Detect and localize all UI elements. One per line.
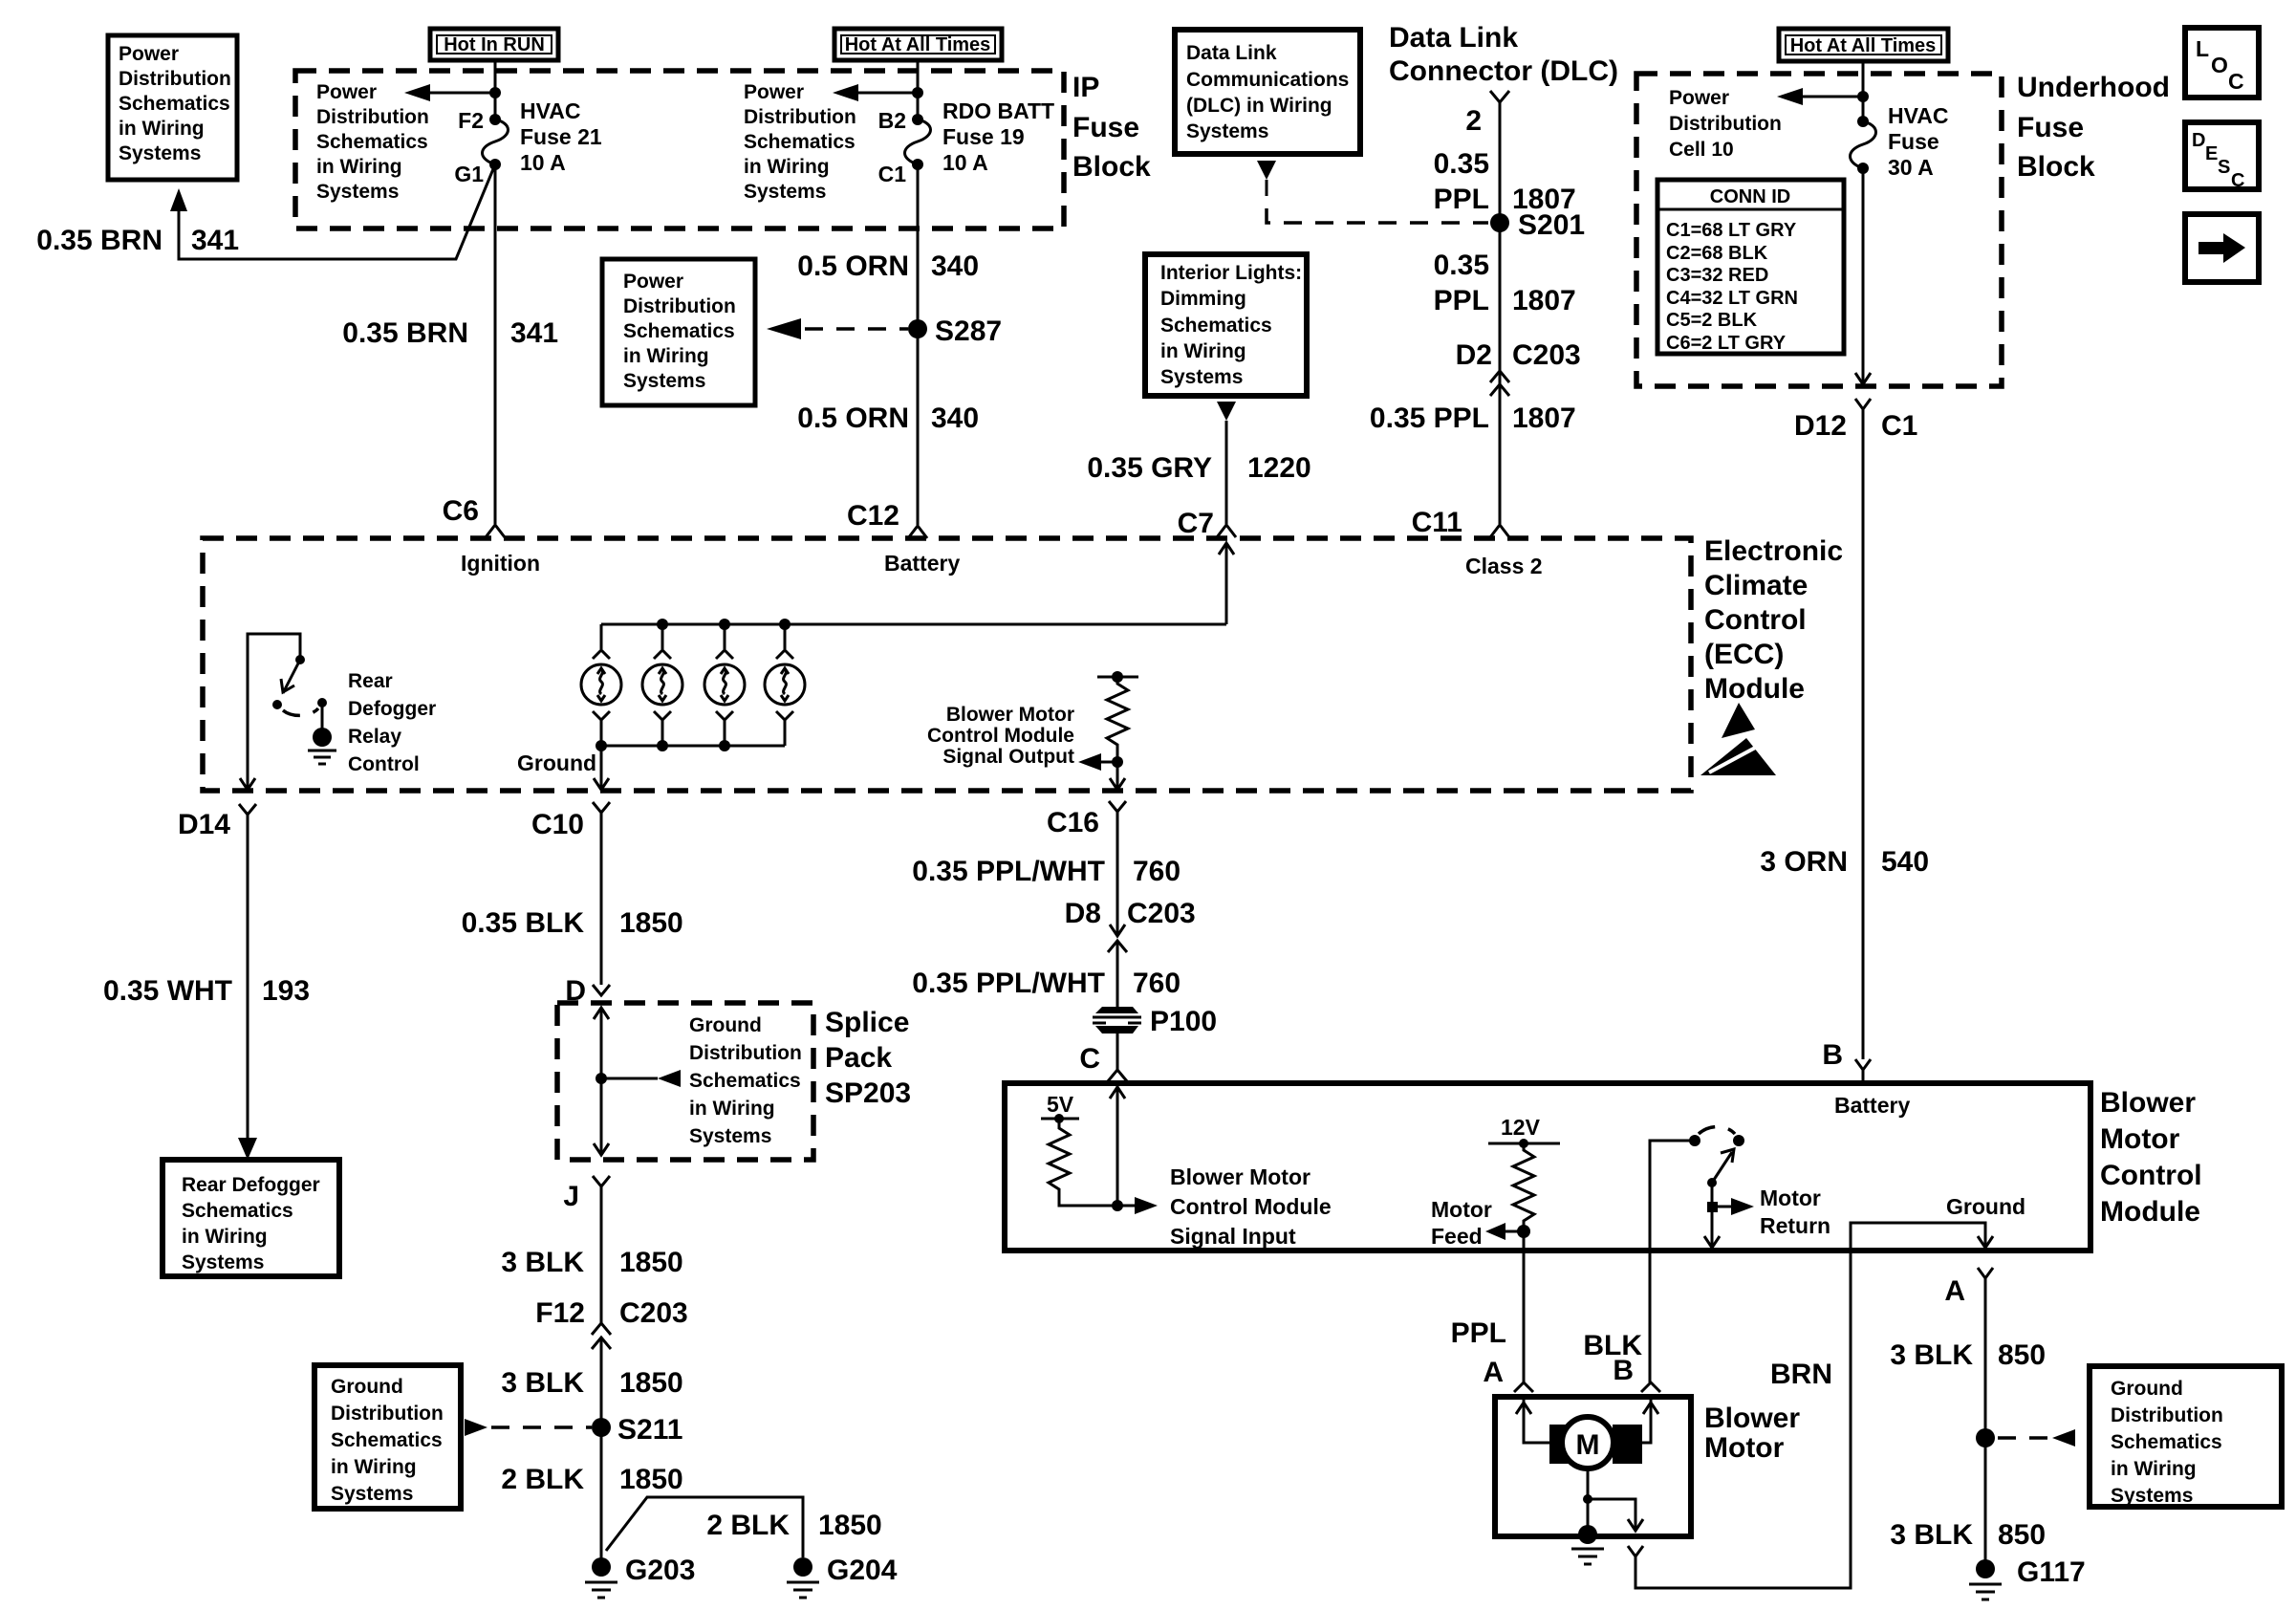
svg-text:0.35: 0.35 — [1434, 250, 1489, 281]
svg-text:C11: C11 — [1412, 507, 1462, 538]
svg-text:0.35 PPL/WHT: 0.35 PPL/WHT — [912, 856, 1105, 887]
node: signal input junction — [1112, 1200, 1123, 1211]
svg-text:C1=68 LT GRY: C1=68 LT GRY — [1666, 220, 1797, 241]
svg-text:Schematics: Schematics — [1160, 315, 1272, 337]
svg-text:Fuse 21: Fuse 21 — [520, 124, 602, 149]
text: Power Distribution Cell 10 — [1669, 87, 1782, 161]
svg-text:760: 760 — [1133, 856, 1180, 887]
svg-text:5V: 5V — [1047, 1092, 1074, 1117]
svg-text:Distribution: Distribution — [331, 1403, 444, 1425]
blower signal output resistor — [1097, 671, 1138, 762]
grommet P100 — [1093, 1007, 1141, 1033]
text: Power Distribution Schematics in Wiring Systems (inside IP box, left) — [316, 81, 429, 203]
svg-text:Blower Motor: Blower Motor — [1170, 1164, 1310, 1189]
label D2 | C203 — [1456, 339, 1581, 371]
wire: Hot In RUN down to fuse F2 — [494, 60, 497, 120]
connector C12 (caret) — [908, 526, 927, 538]
connector D8 C203 (arrow + chevron) — [1108, 925, 1127, 952]
reference box: Rear Defogger Schematics in Wiring Systems — [162, 1160, 339, 1276]
motor brush (right) — [1613, 1425, 1642, 1464]
label 0.35 BRN | 341 (middle) — [342, 317, 558, 349]
label 0.35 PPL | 1807 (lower) — [1370, 402, 1576, 434]
svg-text:Schematics: Schematics — [119, 93, 230, 115]
desc box — [2185, 122, 2259, 191]
svg-text:Rear Defogger: Rear Defogger — [182, 1174, 320, 1196]
svg-text:Schematics: Schematics — [744, 131, 856, 153]
svg-text:3 ORN: 3 ORN — [1760, 846, 1848, 878]
label Blower Motor — [1704, 1403, 1800, 1464]
svg-text:HVAC: HVAC — [520, 98, 580, 123]
motor brush (left) — [1549, 1425, 1582, 1464]
wire: splice pack internal with arrows — [594, 1008, 609, 1155]
svg-text:0.35 BRN: 0.35 BRN — [36, 225, 162, 256]
connector at motor return (Y) — [1628, 1546, 1643, 1569]
connector J (Y) — [593, 1176, 610, 1199]
svg-text:D: D — [2192, 130, 2205, 151]
ESD sensitivity symbol — [1700, 703, 1776, 775]
arrow into Power Distribution box (solid up triangle) — [170, 188, 187, 211]
svg-text:0.35: 0.35 — [1434, 148, 1489, 180]
svg-text:Motor: Motor — [1431, 1197, 1492, 1222]
wire: C into module (up arrow) — [1110, 1083, 1125, 1206]
svg-text:Systems: Systems — [2111, 1485, 2193, 1507]
svg-text:0.35 BRN: 0.35 BRN — [342, 317, 468, 349]
node on bus (lamp 3) — [719, 619, 730, 630]
connector C (caret) — [1108, 1070, 1127, 1081]
label F12 | C203 — [535, 1297, 687, 1329]
svg-text:0.35 WHT: 0.35 WHT — [103, 975, 232, 1007]
svg-text:in Wiring: in Wiring — [744, 156, 830, 178]
splice S201 — [1490, 213, 1509, 232]
wire: Interior Lights to C7 — [1225, 421, 1228, 524]
svg-text:Motor: Motor — [2100, 1123, 2180, 1155]
CONN ID table — [1657, 180, 1844, 354]
svg-text:Block: Block — [1072, 151, 1151, 183]
svg-text:Distribution: Distribution — [744, 106, 856, 128]
svg-text:Control Module: Control Module — [1170, 1194, 1332, 1219]
svg-text:3 BLK: 3 BLK — [1890, 1339, 1973, 1371]
svg-text:Data Link: Data Link — [1389, 22, 1518, 54]
svg-text:Systems: Systems — [316, 181, 399, 203]
label 3 BLK | 1850 (lower) — [501, 1367, 682, 1399]
label 3 ORN | 540 — [1760, 846, 1929, 878]
svg-text:341: 341 — [191, 225, 239, 256]
svg-text:in Wiring: in Wiring — [182, 1226, 268, 1248]
IP fuse block dashed box — [295, 71, 1064, 228]
svg-text:Connector (DLC): Connector (DLC) — [1389, 55, 1618, 87]
svg-text:(ECC): (ECC) — [1704, 639, 1784, 670]
connector at DLC (V) — [1490, 91, 1509, 102]
arrow (left) motor feed — [1485, 1223, 1524, 1240]
svg-text:Power: Power — [119, 43, 179, 65]
svg-text:Distribution: Distribution — [1669, 113, 1782, 135]
svg-text:3 BLK: 3 BLK — [501, 1247, 584, 1278]
svg-text:F2: F2 — [458, 108, 484, 133]
svg-text:D2: D2 — [1456, 339, 1492, 371]
svg-text:Schematics: Schematics — [689, 1070, 801, 1092]
svg-text:Class 2: Class 2 — [1465, 554, 1543, 578]
svg-text:Module: Module — [1704, 673, 1805, 705]
connector C6 (caret) — [486, 525, 505, 537]
svg-text:F12: F12 — [535, 1297, 585, 1329]
label Blower Motor Control Module Signal Input — [1170, 1164, 1332, 1249]
text: Ground Distribution Schematics in Wiring Systems (splice pack) — [689, 1014, 802, 1147]
svg-text:Systems: Systems — [119, 142, 201, 164]
flag box: Hot In RUN — [430, 29, 558, 60]
arrow below Interior Lights box (solid down triangle) — [1217, 402, 1236, 421]
junction node on HVAC fuse feed — [489, 87, 501, 98]
svg-text:0.35 PPL: 0.35 PPL — [1370, 402, 1489, 434]
svg-text:850: 850 — [1998, 1339, 2046, 1371]
label HVAC Fuse 21 10 A — [520, 98, 602, 175]
node on bus (lamp 2) — [657, 619, 668, 630]
svg-text:Schematics: Schematics — [182, 1200, 293, 1222]
arrow into Rear Defogger box (solid down triangle) — [238, 1138, 257, 1160]
svg-text:C1: C1 — [878, 162, 907, 186]
svg-text:G1: G1 — [454, 162, 484, 186]
wire: F12 down to G203 — [600, 1338, 603, 1562]
svg-text:Cell 10: Cell 10 — [1669, 139, 1734, 161]
svg-text:Electronic: Electronic — [1704, 535, 1843, 567]
svg-text:Rear: Rear — [348, 670, 393, 692]
svg-text:C: C — [2231, 170, 2244, 191]
reference box: Data Link Communications (DLC) in Wiring Systems — [1175, 30, 1360, 154]
svg-text:PPL: PPL — [1434, 285, 1489, 316]
svg-text:2 BLK: 2 BLK — [706, 1510, 790, 1541]
wire: motor to ground and return branch — [1583, 1469, 1643, 1534]
svg-text:0.35 PPL/WHT: 0.35 PPL/WHT — [912, 968, 1105, 999]
resistor (5V pull-up) — [1049, 1119, 1117, 1206]
svg-text:Systems: Systems — [1160, 366, 1243, 388]
svg-text:S287: S287 — [935, 315, 1002, 347]
svg-text:0.5 ORN: 0.5 ORN — [797, 402, 909, 434]
svg-text:Return: Return — [1760, 1213, 1830, 1238]
svg-text:0.5 ORN: 0.5 ORN — [797, 250, 909, 282]
svg-text:B2: B2 — [878, 108, 906, 133]
arrow (right) signal input — [1117, 1197, 1158, 1214]
node: splice pack tap — [596, 1073, 607, 1084]
connector C7 (caret) — [1217, 525, 1236, 537]
rear defogger relay control switch — [248, 634, 336, 791]
svg-text:Fuse: Fuse — [1888, 129, 1939, 154]
blower motor control module box — [1005, 1083, 2090, 1251]
reference box: Ground Distribution Schematics (right) — [2090, 1366, 2282, 1507]
fuse HVAC Fuse 21 10 A — [483, 114, 509, 170]
svg-text:Ground: Ground — [517, 751, 596, 775]
svg-text:Relay: Relay — [348, 726, 401, 748]
svg-text:S211: S211 — [617, 1414, 682, 1446]
svg-text:C1: C1 — [1881, 410, 1917, 442]
svg-text:Fuse: Fuse — [1072, 112, 1139, 143]
svg-text:1807: 1807 — [1512, 402, 1576, 434]
svg-text:PPL: PPL — [1434, 184, 1489, 215]
svg-text:Systems: Systems — [689, 1125, 771, 1147]
svg-text:C: C — [2228, 69, 2244, 94]
12V supply rail — [1488, 1115, 1560, 1148]
label 0.35 PPL | 1807 (middle) — [1434, 250, 1576, 316]
indicator lamp 1 — [581, 624, 621, 746]
svg-text:O: O — [2211, 53, 2228, 77]
wire: D12 C1 down to B (3 ORN 540) — [1862, 423, 1865, 1059]
svg-text:Distribution: Distribution — [2111, 1404, 2223, 1426]
svg-text:BRN: BRN — [1770, 1359, 1832, 1390]
svg-text:Power: Power — [744, 81, 804, 103]
svg-text:C3=32 RED: C3=32 RED — [1666, 265, 1768, 286]
svg-text:in Wiring: in Wiring — [316, 156, 402, 178]
label Motor Return — [1760, 1186, 1830, 1238]
splice S287 — [908, 319, 927, 338]
connector D14 (Y) — [239, 804, 256, 827]
svg-text:A: A — [1483, 1357, 1504, 1388]
connector C16 (Y) — [1109, 801, 1126, 824]
svg-text:M: M — [1576, 1429, 1600, 1461]
svg-text:Control: Control — [2100, 1160, 2202, 1191]
junction node on HVAC 30A feed — [1857, 91, 1869, 102]
label 0.35 PPL/WHT | 760 (lower) — [912, 968, 1180, 999]
svg-text:Distribution: Distribution — [689, 1042, 802, 1064]
loc box (top right) — [2185, 28, 2259, 98]
wire: motor return to ground output A — [1851, 1223, 1993, 1251]
connector C10 (Y) — [593, 802, 610, 825]
wire: P100 down to C — [1116, 1033, 1119, 1070]
blower motor box — [1495, 1397, 1691, 1536]
flag box: Hot At All Times (IP) — [834, 29, 1002, 60]
label Motor Feed — [1431, 1197, 1492, 1249]
wire: C10 down to D — [600, 825, 603, 985]
label 0.5 ORN | 340 (lower) — [797, 402, 979, 434]
svg-text:Signal Output: Signal Output — [942, 746, 1074, 768]
connector F12 C203 (double chevron) — [592, 1323, 611, 1349]
svg-text:Systems: Systems — [1186, 120, 1268, 142]
label 0.35 BRN | 341 (top left) — [36, 225, 239, 256]
svg-text:1807: 1807 — [1512, 285, 1576, 316]
svg-text:IP: IP — [1072, 72, 1099, 103]
svg-text:C5=2 BLK: C5=2 BLK — [1666, 310, 1758, 331]
arrow from Ground Distribution box (dashed, right) — [1998, 1429, 2075, 1447]
dashed elbow from DLC box to S201 — [1267, 180, 1488, 223]
label D12 | C1 — [1794, 410, 1917, 442]
svg-text:B: B — [1822, 1039, 1843, 1071]
svg-text:0.35 BLK: 0.35 BLK — [462, 907, 585, 939]
Underhood fuse block dashed box — [1636, 74, 2002, 386]
svg-text:Control: Control — [1704, 604, 1807, 636]
svg-text:SP203: SP203 — [825, 1077, 911, 1109]
svg-text:Battery: Battery — [1834, 1093, 1910, 1118]
label IP Fuse Block — [1072, 72, 1151, 183]
label Rear Defogger Relay Control — [348, 670, 436, 775]
label RDO BATT Fuse 19 10 A — [942, 98, 1054, 175]
svg-text:S201: S201 — [1518, 209, 1585, 241]
svg-text:Systems: Systems — [744, 181, 826, 203]
wire: signal output down to C16 with arrow — [1110, 762, 1125, 790]
svg-text:C6=2 LT GRY: C6=2 LT GRY — [1666, 333, 1787, 354]
label Electronic Climate Control (ECC) Module — [1704, 535, 1843, 705]
flag box: Hot At All Times (underhood) — [1779, 29, 1948, 61]
svg-text:Blower: Blower — [2100, 1087, 2196, 1119]
svg-text:Schematics: Schematics — [316, 131, 428, 153]
svg-text:P100: P100 — [1150, 1006, 1217, 1037]
connector D12 C1 (Y) — [1855, 399, 1871, 423]
fuse RDO BATT Fuse 19 10 A — [905, 114, 931, 170]
svg-text:Data Link: Data Link — [1186, 42, 1277, 64]
splice S211 — [592, 1418, 611, 1437]
svg-text:Feed: Feed — [1431, 1224, 1483, 1249]
svg-text:Underhood: Underhood — [2017, 72, 2170, 103]
connector C11 (caret) — [1490, 525, 1509, 537]
wire: C1 down to C12 — [917, 164, 920, 525]
svg-text:Control Module: Control Module — [927, 725, 1074, 747]
svg-text:C6: C6 — [443, 495, 479, 527]
label D8 | C203 — [1065, 898, 1196, 929]
indicator lamp 3 — [704, 624, 745, 746]
connector B at blower motor (caret) — [1641, 1382, 1660, 1392]
junction node on RDO BATT fuse feed — [912, 87, 923, 98]
svg-text:C2=68 BLK: C2=68 BLK — [1666, 243, 1768, 264]
ground (blower motor case) — [1571, 1525, 1604, 1564]
svg-text:Dimming: Dimming — [1160, 288, 1246, 310]
connector D2 C203 (double chevron) — [1490, 371, 1509, 396]
node: signal output junction — [1112, 756, 1123, 768]
arrow (left) to Power Distribution Cell 10 — [1777, 88, 1863, 105]
svg-text:Splice: Splice — [825, 1007, 909, 1038]
label 3 BLK | 850 (lower) — [1890, 1519, 2046, 1551]
svg-text:1850: 1850 — [619, 1367, 683, 1399]
svg-text:PPL: PPL — [1451, 1317, 1506, 1349]
svg-text:C4=32 LT GRN: C4=32 LT GRN — [1666, 288, 1798, 309]
node on return bus (lamp 1) — [596, 740, 607, 751]
svg-text:Blower: Blower — [1704, 1403, 1800, 1434]
wire: D8 down to P100 — [1116, 941, 1119, 1007]
resistor (motor feed) — [1513, 1143, 1534, 1231]
wire: A output down to G117 — [1984, 1292, 1987, 1562]
connector A at module output (Y) — [1978, 1268, 1993, 1292]
svg-text:C: C — [1079, 1043, 1100, 1075]
svg-text:Motor: Motor — [1704, 1432, 1785, 1464]
blower motor A lead (arrow up) — [1516, 1397, 1549, 1443]
svg-text:Schematics: Schematics — [331, 1429, 443, 1451]
reference box: Ground Distribution Schematics (left) — [314, 1365, 461, 1509]
svg-text:Ignition: Ignition — [461, 551, 540, 576]
svg-text:1850: 1850 — [619, 907, 683, 939]
arrow below DLC box (solid down triangle) — [1257, 161, 1276, 180]
svg-text:Ground: Ground — [1946, 1194, 2025, 1219]
svg-text:G204: G204 — [827, 1555, 898, 1586]
svg-text:Distribution: Distribution — [316, 106, 429, 128]
svg-text:(DLC) in Wiring: (DLC) in Wiring — [1186, 95, 1332, 117]
svg-text:in Wiring: in Wiring — [119, 118, 205, 140]
label 0.35 PPL/WHT | 760 (upper) — [912, 856, 1180, 887]
text: Power Distribution Schematics in Wiring Systems (inside IP box, right) — [744, 81, 856, 203]
svg-text:Schematics: Schematics — [623, 320, 735, 342]
svg-text:RDO BATT: RDO BATT — [942, 98, 1054, 123]
svg-text:760: 760 — [1133, 968, 1180, 999]
svg-text:Ground: Ground — [689, 1014, 762, 1036]
label Splice Pack SP203 — [825, 1007, 911, 1109]
svg-text:1850: 1850 — [619, 1247, 683, 1278]
svg-text:in Wiring: in Wiring — [1160, 340, 1246, 362]
label Data Link Connector (DLC) — [1389, 22, 1618, 87]
svg-text:Ground: Ground — [331, 1376, 403, 1398]
wire: DLC down to C11 — [1499, 102, 1502, 524]
svg-text:D14: D14 — [178, 809, 230, 840]
node on return bus (lamp 2) — [657, 740, 668, 751]
svg-text:Hot At All Times: Hot At All Times — [1790, 35, 1937, 56]
svg-text:CONN ID: CONN ID — [1710, 186, 1790, 207]
svg-text:1850: 1850 — [619, 1464, 683, 1495]
svg-text:Distribution: Distribution — [119, 68, 231, 90]
label 3 BLK | 1850 (upper) — [501, 1247, 682, 1278]
svg-text:in Wiring: in Wiring — [623, 345, 709, 367]
svg-text:Hot In RUN: Hot In RUN — [444, 34, 545, 55]
svg-text:C203: C203 — [619, 1297, 688, 1329]
ECC module dashed box — [203, 538, 1691, 791]
indicator lamp 2 — [642, 624, 682, 746]
wire: branch to G204 — [606, 1497, 803, 1557]
wire: lamp return bus — [601, 745, 785, 748]
svg-text:E: E — [2205, 143, 2218, 164]
svg-text:G117: G117 — [2017, 1556, 2086, 1588]
svg-text:Block: Block — [2017, 151, 2095, 183]
svg-text:Climate: Climate — [1704, 570, 1808, 601]
wire: C16 down to D8 — [1116, 824, 1119, 936]
svg-text:341: 341 — [510, 317, 558, 349]
svg-text:Power: Power — [1669, 87, 1729, 109]
wire: motor return BRN up into module — [1635, 1251, 1851, 1588]
svg-text:193: 193 — [262, 975, 310, 1007]
ground G203 — [585, 1557, 617, 1598]
svg-text:Ground: Ground — [2111, 1378, 2183, 1400]
svg-text:30 A: 30 A — [1888, 155, 1934, 180]
svg-text:1220: 1220 — [1247, 452, 1311, 484]
svg-text:Signal Input: Signal Input — [1170, 1224, 1296, 1249]
arrow to Ground Distribution reference (splice pack) — [601, 1070, 681, 1087]
svg-text:850: 850 — [1998, 1519, 2046, 1551]
label 0.35 GRY | 1220 — [1087, 452, 1310, 484]
wire: lamp return down to C10 with arrow — [594, 746, 609, 790]
svg-text:C10: C10 — [531, 809, 584, 840]
node on return bus (lamp 3) — [719, 740, 730, 751]
svg-text:540: 540 — [1881, 846, 1929, 878]
svg-text:3 BLK: 3 BLK — [1890, 1519, 1973, 1551]
wire: Hot At All Times down to fuse B2 — [917, 60, 920, 120]
wire: D14 down to Rear Defogger Schematics — [247, 827, 249, 1140]
reference box: Interior Lights Dimming Schematics — [1145, 254, 1307, 396]
label 0.35 PPL | 1807 (upper) — [1434, 148, 1576, 215]
svg-text:S: S — [2218, 157, 2230, 178]
svg-text:Power: Power — [623, 271, 683, 293]
label 0.5 ORN | 340 (upper) — [797, 250, 979, 282]
svg-text:C7: C7 — [1178, 508, 1214, 539]
label 2 BLK | 1850 (branch) — [706, 1510, 881, 1541]
label HVAC Fuse 30 A — [1888, 103, 1948, 180]
node on bus (lamp 4) — [779, 619, 791, 630]
svg-text:C16: C16 — [1047, 807, 1099, 838]
svg-text:D8: D8 — [1065, 898, 1101, 929]
label 0.35 WHT | 193 — [103, 975, 310, 1007]
fuse HVAC Fuse 30 A — [1851, 116, 1876, 174]
wire: J down to F12 — [600, 1199, 603, 1323]
reference box: Power Distribution Schematics (middle) — [602, 259, 755, 405]
svg-text:Systems: Systems — [623, 370, 705, 392]
label Underhood Fuse Block — [2017, 72, 2170, 183]
label 0.35 BLK | 1850 — [462, 907, 683, 939]
svg-text:2 BLK: 2 BLK — [501, 1464, 584, 1495]
svg-text:Systems: Systems — [331, 1483, 413, 1505]
svg-text:J: J — [563, 1181, 579, 1212]
svg-text:Fuse 19: Fuse 19 — [942, 124, 1025, 149]
arrow: relay control wire exits at D14 — [240, 778, 255, 790]
svg-text:3 BLK: 3 BLK — [501, 1367, 584, 1399]
